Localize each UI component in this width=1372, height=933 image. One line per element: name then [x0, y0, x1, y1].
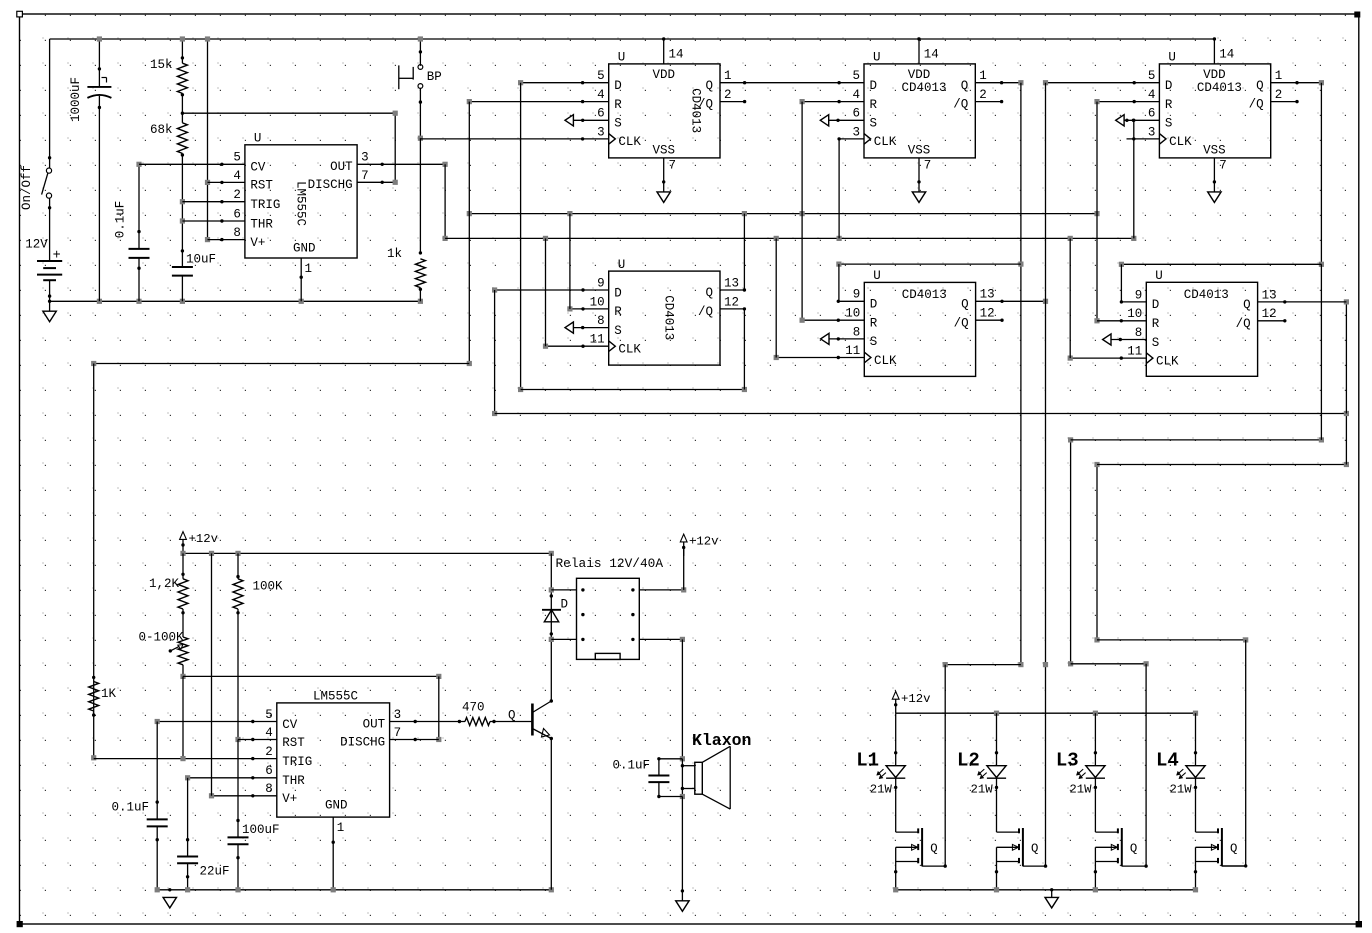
- svg-text:D: D: [870, 79, 878, 93]
- svg-text:13: 13: [980, 288, 995, 302]
- svg-text:10uF: 10uF: [186, 253, 216, 267]
- svg-text:1000uF: 1000uF: [69, 77, 83, 122]
- svg-text:0.1uF: 0.1uF: [112, 801, 150, 815]
- svg-text:7: 7: [1219, 158, 1227, 172]
- svg-text:U: U: [1168, 51, 1176, 65]
- svg-text:CLK: CLK: [618, 343, 641, 357]
- svg-text:U: U: [254, 132, 262, 146]
- svg-text:Q: Q: [930, 842, 937, 856]
- svg-text:21W: 21W: [971, 783, 994, 797]
- svg-text:1k: 1k: [387, 247, 402, 261]
- svg-text:V+: V+: [282, 792, 297, 806]
- svg-text:0.1uF: 0.1uF: [114, 201, 128, 239]
- svg-text:S: S: [870, 335, 878, 349]
- svg-text:13: 13: [1262, 288, 1277, 302]
- svg-text:12: 12: [980, 307, 995, 321]
- svg-text:R: R: [1165, 98, 1173, 112]
- svg-text:THR: THR: [282, 774, 305, 788]
- svg-text:On/Off: On/Off: [20, 165, 34, 210]
- svg-text:/Q: /Q: [698, 305, 713, 319]
- svg-text:2: 2: [724, 88, 732, 102]
- svg-text:6: 6: [1148, 107, 1156, 121]
- svg-text:1K: 1K: [101, 687, 117, 701]
- svg-text:9: 9: [597, 276, 605, 290]
- svg-text:D: D: [870, 298, 878, 312]
- svg-text:Q: Q: [705, 286, 713, 300]
- svg-text:21W: 21W: [1069, 783, 1092, 797]
- svg-text:9: 9: [853, 288, 861, 302]
- svg-text:3: 3: [597, 125, 605, 139]
- svg-text:THR: THR: [250, 217, 273, 231]
- svg-text:D: D: [614, 286, 622, 300]
- svg-text:Q: Q: [1130, 842, 1137, 856]
- svg-text:21W: 21W: [870, 783, 893, 797]
- svg-text:L2: L2: [957, 750, 980, 772]
- svg-text:9: 9: [1135, 288, 1143, 302]
- svg-text:12: 12: [1262, 307, 1277, 321]
- svg-text:11: 11: [590, 333, 605, 347]
- svg-text:CD4013: CD4013: [901, 81, 946, 95]
- svg-text:5: 5: [1148, 69, 1156, 83]
- svg-text:2: 2: [1275, 88, 1283, 102]
- svg-text:5: 5: [597, 69, 605, 83]
- svg-text:U: U: [1155, 269, 1163, 283]
- svg-text:CD4013: CD4013: [1184, 288, 1229, 302]
- svg-text:V+: V+: [250, 236, 265, 250]
- svg-text:OUT: OUT: [330, 160, 353, 174]
- svg-text:470: 470: [462, 701, 485, 715]
- svg-text:CLK: CLK: [1169, 135, 1192, 149]
- svg-text:RST: RST: [250, 179, 273, 193]
- svg-text:5: 5: [265, 708, 273, 722]
- svg-text:2: 2: [979, 88, 987, 102]
- svg-text:6: 6: [233, 207, 241, 221]
- svg-text:BP: BP: [427, 70, 442, 84]
- svg-text:8: 8: [597, 314, 605, 328]
- svg-text:Q: Q: [961, 79, 969, 93]
- svg-text:DISCHG: DISCHG: [308, 178, 353, 192]
- svg-text:4: 4: [233, 169, 241, 183]
- svg-text:3: 3: [1148, 125, 1156, 139]
- svg-text:21W: 21W: [1170, 783, 1193, 797]
- svg-text:7: 7: [669, 158, 677, 172]
- svg-text:8: 8: [1135, 326, 1143, 340]
- svg-text:4: 4: [1148, 88, 1156, 102]
- svg-text:GND: GND: [293, 242, 316, 256]
- svg-text:0-100K: 0-100K: [139, 631, 185, 645]
- svg-text:R: R: [870, 317, 878, 331]
- svg-text:VSS: VSS: [1203, 143, 1226, 157]
- svg-text:14: 14: [1219, 48, 1234, 62]
- svg-text:7: 7: [924, 158, 932, 172]
- svg-text:1: 1: [305, 262, 313, 276]
- svg-text:TRIG: TRIG: [250, 198, 280, 212]
- svg-text:4: 4: [597, 88, 605, 102]
- svg-text:Q: Q: [1230, 842, 1237, 856]
- svg-text:2: 2: [233, 188, 241, 202]
- svg-text:S: S: [1165, 117, 1173, 131]
- svg-text:Q: Q: [961, 297, 969, 311]
- svg-text:CD4013: CD4013: [662, 295, 676, 340]
- svg-text:/Q: /Q: [1249, 98, 1264, 112]
- svg-text:S: S: [614, 117, 622, 131]
- svg-text:DISCHG: DISCHG: [340, 735, 385, 749]
- svg-text:6: 6: [852, 107, 860, 121]
- svg-text:CLK: CLK: [874, 135, 897, 149]
- svg-text:U: U: [873, 51, 881, 65]
- svg-text:100K: 100K: [253, 580, 284, 594]
- svg-text:/Q: /Q: [1236, 317, 1251, 331]
- svg-text:4: 4: [852, 88, 860, 102]
- svg-text:8: 8: [853, 325, 861, 339]
- svg-text:GND: GND: [325, 799, 348, 813]
- svg-text:11: 11: [845, 344, 860, 358]
- svg-text:VSS: VSS: [652, 143, 675, 157]
- svg-text:U: U: [873, 269, 881, 283]
- svg-text:22uF: 22uF: [200, 865, 230, 879]
- svg-text:Q: Q: [1243, 298, 1251, 312]
- svg-text:D: D: [561, 598, 569, 612]
- svg-text:S: S: [870, 117, 878, 131]
- svg-text:12V: 12V: [25, 238, 48, 252]
- svg-text:R: R: [870, 98, 878, 112]
- svg-text:4: 4: [265, 726, 273, 740]
- svg-text:L3: L3: [1056, 750, 1079, 772]
- svg-text:/Q: /Q: [954, 316, 969, 330]
- svg-text:L1: L1: [856, 750, 879, 772]
- svg-text:6: 6: [597, 107, 605, 121]
- svg-text:5: 5: [852, 69, 860, 83]
- svg-text:+12v: +12v: [689, 535, 719, 549]
- svg-text:14: 14: [924, 48, 939, 62]
- svg-text:8: 8: [265, 782, 273, 796]
- svg-text:CD4013: CD4013: [902, 288, 947, 302]
- svg-text:Q: Q: [1256, 79, 1264, 93]
- svg-text:/Q: /Q: [953, 98, 968, 112]
- svg-text:R: R: [614, 98, 622, 112]
- svg-text:Q: Q: [508, 709, 516, 723]
- svg-text:CD4013: CD4013: [688, 88, 702, 133]
- svg-text:CLK: CLK: [1156, 354, 1179, 368]
- svg-text:13: 13: [724, 276, 739, 290]
- svg-text:S: S: [614, 324, 622, 338]
- svg-text:+12v: +12v: [901, 692, 931, 706]
- svg-text:U: U: [618, 258, 626, 272]
- svg-text:CV: CV: [250, 161, 266, 175]
- svg-text:1: 1: [979, 69, 987, 83]
- svg-text:VSS: VSS: [908, 143, 931, 157]
- svg-text:LM555C: LM555C: [313, 690, 358, 704]
- svg-text:Q: Q: [705, 79, 713, 93]
- svg-text:R: R: [1152, 317, 1160, 331]
- svg-text:CLK: CLK: [874, 354, 897, 368]
- svg-text:68k: 68k: [150, 123, 173, 137]
- svg-text:RST: RST: [282, 736, 305, 750]
- svg-text:OUT: OUT: [363, 717, 386, 731]
- svg-text:U: U: [618, 51, 626, 65]
- svg-text:3: 3: [394, 708, 402, 722]
- svg-text:LM555C: LM555C: [294, 181, 308, 226]
- svg-text:8: 8: [233, 226, 241, 240]
- svg-text:15k: 15k: [150, 58, 173, 72]
- svg-text:7: 7: [394, 726, 402, 740]
- svg-text:10: 10: [590, 295, 605, 309]
- svg-text:11: 11: [1127, 345, 1142, 359]
- svg-text:D: D: [1165, 79, 1173, 93]
- svg-text:10: 10: [1127, 307, 1142, 321]
- svg-text:CV: CV: [282, 718, 298, 732]
- svg-text:Q: Q: [1031, 842, 1038, 856]
- svg-text:3: 3: [852, 125, 860, 139]
- svg-text:14: 14: [669, 48, 684, 62]
- svg-text:1: 1: [724, 69, 732, 83]
- svg-text:VDD: VDD: [1203, 68, 1226, 82]
- svg-text:R: R: [614, 305, 622, 319]
- svg-text:100uF: 100uF: [242, 823, 280, 837]
- svg-text:1: 1: [1275, 69, 1283, 83]
- svg-text:CD4013: CD4013: [1197, 81, 1242, 95]
- svg-text:Klaxon: Klaxon: [692, 731, 751, 750]
- svg-text:1: 1: [337, 821, 345, 835]
- svg-text:L4: L4: [1156, 750, 1179, 772]
- svg-text:10: 10: [845, 307, 860, 321]
- svg-text:VDD: VDD: [908, 68, 931, 82]
- svg-text:6: 6: [265, 764, 273, 778]
- svg-text:D: D: [1152, 298, 1160, 312]
- svg-text:+12v: +12v: [189, 532, 219, 546]
- svg-text:5: 5: [233, 151, 241, 165]
- svg-text:2: 2: [265, 745, 273, 759]
- svg-text:1,2K: 1,2K: [149, 577, 180, 591]
- svg-text:TRIG: TRIG: [282, 755, 312, 769]
- svg-text:12: 12: [724, 295, 739, 309]
- svg-text:S: S: [1152, 336, 1160, 350]
- svg-text:Relais 12V/40A: Relais 12V/40A: [556, 556, 664, 571]
- svg-text:7: 7: [361, 169, 369, 183]
- svg-text:D: D: [614, 79, 622, 93]
- svg-text:3: 3: [361, 151, 369, 165]
- svg-text:0.1uF: 0.1uF: [613, 759, 651, 773]
- svg-text:VDD: VDD: [652, 68, 675, 82]
- svg-text:CLK: CLK: [618, 135, 641, 149]
